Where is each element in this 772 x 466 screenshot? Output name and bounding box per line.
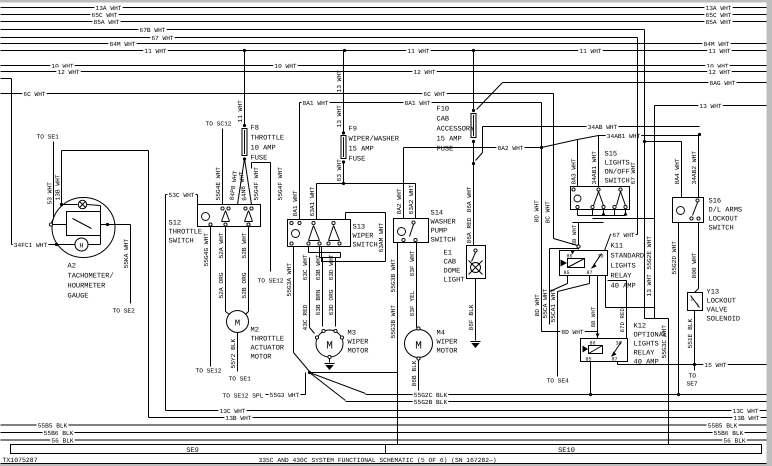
svg-text:55G2E WHT: 55G2E WHT — [646, 236, 653, 270]
svg-text:55G3C WHT: 55G3C WHT — [661, 325, 668, 359]
svg-text:8A2 WHT: 8A2 WHT — [498, 145, 524, 152]
svg-text:63F YEL: 63F YEL — [409, 290, 416, 316]
junction F10 top — [472, 109, 475, 112]
svg-text:SWITCH: SWITCH — [709, 225, 734, 233]
svg-text:13B WHT: 13B WHT — [55, 174, 62, 200]
wire 52A to M2 — [225, 227, 227, 312]
svg-text:53C WHT: 53C WHT — [169, 192, 195, 199]
junction 34AB/34AB1/34AB2 — [698, 133, 701, 136]
svg-text:55G4F WHT: 55G4F WHT — [253, 167, 260, 201]
svg-text:55CA WHT: 55CA WHT — [542, 289, 549, 319]
svg-text:55G4E WHT: 55G4E WHT — [215, 167, 222, 201]
wire 13B WHT bus — [149, 417, 767, 419]
svg-text:55G3B WHT: 55G3B WHT — [390, 305, 397, 339]
junction gauge lamp left — [60, 203, 63, 206]
M3 terminals — [322, 329, 325, 332]
S15 contact triangles — [594, 192, 599, 206]
relay K11 box — [560, 251, 608, 276]
wire riser x148 down to 13B bus — [148, 151, 150, 418]
wire 63A1 WHT to S13 — [316, 184, 318, 220]
svg-text:DOME: DOME — [444, 268, 461, 276]
svg-text:S16: S16 — [709, 198, 722, 206]
svg-text:40 AMP: 40 AMP — [634, 359, 659, 367]
wire 86B BLK below M4 — [418, 361, 420, 395]
wire 65C WHT bus — [1, 14, 767, 16]
svg-text:THROTTLE: THROTTLE — [169, 229, 203, 237]
svg-text:86F BLK: 86F BLK — [468, 304, 475, 330]
wire 8A2 WHT — [404, 147, 542, 149]
svg-text:M3: M3 — [348, 330, 356, 338]
junction 11 WHT / F10 feed — [472, 49, 475, 52]
junction 63 node — [342, 182, 345, 185]
wire 52B to M2 — [248, 227, 250, 312]
svg-text:15 WHT: 15 WHT — [704, 362, 727, 369]
svg-text:2: 2 — [691, 297, 694, 303]
wire 55G3C WHT riser to SE10 — [668, 319, 670, 445]
svg-text:Y13: Y13 — [707, 289, 720, 297]
svg-text:55G3B WHT: 55G3B WHT — [390, 259, 397, 293]
wire 8A1 WHT — [300, 102, 542, 104]
fuse F9 — [342, 131, 345, 134]
wire 13 WHT riser — [654, 106, 656, 308]
wire lamp top route to 13B riser — [61, 151, 63, 205]
svg-text:55B6 BLK: 55B6 BLK — [714, 430, 744, 437]
wire 8C WHT from 6C to K11 — [553, 94, 555, 239]
svg-text:TO SE4: TO SE4 — [547, 378, 570, 385]
svg-text:55Y2 BLK: 55Y2 BLK — [230, 339, 237, 369]
K11 pin 86 junction — [571, 251, 575, 255]
svg-text:ACTUATOR: ACTUATOR — [251, 345, 285, 353]
svg-text:13 WHT: 13 WHT — [336, 105, 343, 128]
K12 contact arm — [612, 342, 622, 357]
svg-text:87: 87 — [587, 270, 593, 276]
S14 contact — [412, 221, 415, 224]
S15 top pins — [572, 188, 575, 191]
svg-text:8D WHT: 8D WHT — [561, 329, 584, 336]
wire 67D RED riser to K12 pin 30 — [608, 280, 627, 282]
svg-text:40 AMP: 40 AMP — [611, 283, 636, 291]
svg-text:12 WHT: 12 WHT — [708, 69, 731, 76]
svg-text:63AM WHT: 63AM WHT — [378, 223, 385, 253]
wire F10 output to 86A node — [473, 142, 475, 164]
svg-text:HOURMETER: HOURMETER — [68, 283, 107, 291]
wire 67B WHT bus — [1, 29, 645, 31]
junction S15 collector arrows — [602, 212, 606, 216]
svg-text:CAB: CAB — [437, 116, 450, 124]
svg-text:SWITCH: SWITCH — [353, 242, 378, 250]
svg-text:LOCKOUT: LOCKOUT — [709, 216, 738, 224]
lamp on gauge — [62, 204, 78, 206]
wire 84M WHT bus — [1, 43, 767, 45]
wire 8A2 WHT to S14 — [403, 148, 405, 219]
svg-text:55G2D WHT: 55G2D WHT — [671, 241, 678, 275]
svg-text:87: 87 — [612, 357, 618, 363]
K12 coil arrow — [583, 346, 589, 353]
svg-text:SOLENOID: SOLENOID — [707, 316, 741, 324]
svg-text:8A3 WHT: 8A3 WHT — [571, 158, 578, 184]
wire 34AB1 WHT — [599, 135, 700, 137]
wire 6C WHT — [1, 93, 554, 95]
svg-text:E1: E1 — [444, 250, 452, 258]
wire 12 WHT bus — [1, 71, 767, 73]
wire 56 BLK bus — [1, 439, 767, 441]
wire K12 pin 87 to 15 WHT — [617, 362, 619, 365]
svg-text:55G2B BLK: 55G2B BLK — [414, 399, 448, 406]
svg-text:34AB2 WHT: 34AB2 WHT — [691, 151, 698, 185]
svg-text:STANDARD: STANDARD — [611, 253, 645, 261]
wire 67 WHT bus — [1, 37, 638, 39]
svg-text:43C RED: 43C RED — [302, 304, 309, 330]
svg-text:63F WHT: 63F WHT — [409, 250, 416, 276]
svg-text:34FC1 WHT: 34FC1 WHT — [14, 242, 48, 249]
wire 55KA WHT from gauge — [130, 225, 132, 304]
svg-text:K11: K11 — [611, 243, 624, 251]
svg-text:67D RED: 67D RED — [619, 308, 626, 333]
svg-text:TO SC12: TO SC12 — [206, 121, 232, 128]
svg-text:VALVE: VALVE — [707, 307, 728, 315]
svg-text:8A4 WHT: 8A4 WHT — [674, 158, 681, 184]
wire 55G2C BLK bus — [366, 394, 767, 396]
wire 55G4E WHT to S12 — [222, 129, 224, 205]
wire 63D to M3 — [335, 258, 337, 327]
svg-text:34AB WHT: 34AB WHT — [588, 124, 618, 131]
wire 8A2 to S15 diagonal — [542, 140, 578, 148]
K11 coil — [568, 259, 585, 268]
svg-text:MOTOR: MOTOR — [348, 348, 370, 356]
svg-text:85A WHT: 85A WHT — [706, 19, 732, 26]
wire 67B WHT riser — [644, 30, 646, 319]
svg-text:ON/OFF: ON/OFF — [605, 168, 630, 177]
wire 8B WHT to K11 pin 86 — [573, 222, 604, 224]
svg-text:SE9: SE9 — [186, 447, 199, 455]
svg-text:8B WHT: 8B WHT — [571, 224, 578, 245]
S12 contact arms — [222, 211, 226, 222]
svg-text:55B5 BLK: 55B5 BLK — [708, 422, 738, 429]
wire 8D WHT long riser — [541, 103, 543, 332]
grey screenshot border right — [767, 0, 772, 466]
svg-text:63 WHT: 63 WHT — [336, 159, 343, 182]
wire 8A3 riser into S15 — [577, 140, 579, 187]
switch S13 wiper box — [288, 220, 351, 247]
junction 15 WHT / TO SE7 — [693, 363, 696, 366]
svg-text:WIPER: WIPER — [348, 339, 370, 347]
svg-text:SWITCH: SWITCH — [605, 178, 630, 186]
wire K12 pin 85 to ground bus — [590, 362, 592, 395]
connector block SE10 — [386, 445, 762, 454]
wire 67 WHT into K11 pin 30 — [611, 234, 638, 236]
wire left edge stub y78 — [1, 78, 12, 80]
wire 55G3B WHT down from S14 — [397, 243, 399, 445]
wire 8A4 rung — [645, 141, 682, 143]
svg-text:67 WHT: 67 WHT — [151, 35, 174, 42]
connector block SE9 — [11, 445, 386, 454]
svg-text:56 BLK: 56 BLK — [51, 437, 74, 444]
svg-text:56 BLK: 56 BLK — [723, 437, 746, 444]
svg-text:FUSE: FUSE — [437, 146, 454, 154]
relay K12 box — [581, 339, 628, 362]
svg-text:55KA WHT: 55KA WHT — [123, 239, 130, 269]
svg-text:30: 30 — [616, 341, 622, 347]
svg-text:55G3A WHT: 55G3A WHT — [286, 263, 293, 297]
wire 63F to M4 — [416, 243, 418, 328]
svg-text:67 WHT: 67 WHT — [612, 232, 635, 239]
K12 coil — [589, 346, 603, 354]
bottom frame line — [1, 463, 767, 465]
fuse F8 — [243, 124, 246, 127]
wire 55Y2 BLK below M2 — [237, 333, 239, 372]
wire 34AB riser from F10 output — [482, 127, 484, 153]
lamp E1 cab dome light box — [467, 246, 486, 279]
wire 67 WHT riser — [637, 38, 639, 235]
svg-text:TO SE12: TO SE12 — [258, 278, 284, 285]
E1 switch contact — [474, 249, 477, 252]
wire 55G4F WHT bracket to TO SE12 — [252, 162, 271, 164]
svg-text:8C WHT: 8C WHT — [545, 201, 552, 224]
gauge inner meter rect — [67, 212, 101, 236]
svg-text:55B6 BLK: 55B6 BLK — [44, 430, 74, 437]
svg-text:15 AMP: 15 AMP — [437, 136, 462, 144]
svg-text:55G4G WHT: 55G4G WHT — [203, 233, 210, 267]
S13 bottom pins — [290, 242, 293, 245]
junction K11 pin 86 — [577, 245, 580, 248]
ground below M3 — [329, 359, 331, 363]
wire 55G4G WHT to TO SE12 — [210, 227, 212, 367]
svg-text:12 WHT: 12 WHT — [413, 69, 436, 76]
svg-text:8A1 WHT: 8A1 WHT — [303, 100, 329, 107]
junction gauge left terminal — [55, 243, 58, 246]
svg-text:WASHER: WASHER — [431, 219, 457, 227]
wire K11 pin 87 down — [589, 276, 591, 284]
svg-text:WIPER: WIPER — [437, 339, 459, 347]
svg-text:52A WHT: 52A WHT — [218, 232, 225, 258]
wire 13A WHT top bus — [1, 7, 767, 9]
svg-text:TO SE1: TO SE1 — [37, 134, 60, 141]
svg-text:8D WHT: 8D WHT — [534, 294, 541, 317]
svg-text:63D WHT: 63D WHT — [328, 254, 335, 280]
switch S15 box — [571, 187, 630, 210]
K11 contact arm — [592, 254, 602, 269]
svg-text:S13: S13 — [353, 224, 366, 232]
svg-text:52B ORG: 52B ORG — [241, 272, 248, 298]
S15 bottom pins — [576, 205, 579, 208]
wire 15 WHT — [618, 364, 767, 366]
junction F10 bottom — [472, 140, 475, 143]
wire 85A WHT bus — [1, 21, 767, 23]
svg-text:63B BRN: 63B BRN — [315, 289, 322, 315]
svg-text:TACHOMETER/: TACHOMETER/ — [68, 272, 114, 281]
svg-text:SE7: SE7 — [687, 381, 698, 388]
wire 34AB WHT — [483, 126, 700, 128]
svg-text:11 WHT: 11 WHT — [237, 100, 244, 123]
wire 63B to M3 — [322, 258, 324, 327]
svg-text:TO SE12: TO SE12 — [196, 368, 222, 375]
svg-text:53 WHT: 53 WHT — [47, 182, 54, 205]
svg-text:M: M — [235, 319, 240, 329]
svg-text:11 WHT: 11 WHT — [708, 48, 731, 55]
svg-text:TO SE2: TO SE2 — [113, 308, 136, 315]
wire F9 feed from 11 bus — [343, 51, 345, 133]
wire F8 feed from 11 bus — [244, 51, 246, 125]
S15 output collectors — [578, 215, 626, 217]
svg-text:86: 86 — [567, 254, 573, 260]
grey screenshot border top — [0, 0, 772, 3]
svg-text:S14: S14 — [431, 210, 444, 218]
junction M4 to 55G2C bus — [417, 393, 420, 396]
svg-text:M2: M2 — [251, 327, 259, 335]
svg-text:6C WHT: 6C WHT — [23, 91, 46, 98]
ground below E1 — [471, 341, 481, 343]
wire 800 WHT to Y13 — [698, 223, 700, 289]
svg-text:TO: TO — [689, 373, 697, 380]
svg-text:335C AND 430C SYSTEM FUNCTIONA: 335C AND 430C SYSTEM FUNCTIONAL SCHEMATI… — [258, 457, 496, 464]
svg-text:55B5 BLK: 55B5 BLK — [38, 422, 68, 429]
junction 8D arrow at K12 feed — [596, 334, 600, 338]
svg-text:F10: F10 — [437, 106, 450, 114]
M4 terminals — [417, 327, 420, 330]
svg-text:MOTOR: MOTOR — [251, 354, 273, 362]
wire S13 inner routing — [309, 252, 341, 254]
svg-text:FUSE: FUSE — [251, 155, 268, 163]
svg-text:SWITCH: SWITCH — [169, 238, 194, 246]
svg-text:8D WHT: 8D WHT — [534, 200, 541, 223]
wire 8D WHT into K12 — [542, 331, 598, 333]
svg-text:WIPER/WASHER: WIPER/WASHER — [349, 135, 400, 144]
svg-text:30: 30 — [598, 254, 604, 260]
svg-text:67B WHT: 67B WHT — [140, 27, 166, 34]
gauge left pin and meter wire — [49, 223, 52, 226]
svg-text:LOCKOUT: LOCKOUT — [707, 298, 736, 306]
motor M2 throttle actuator — [227, 311, 249, 333]
svg-text:52B WHT: 52B WHT — [241, 232, 248, 258]
svg-text:13 WHT: 13 WHT — [699, 103, 722, 110]
wire 8A4 WHT to S16 — [681, 142, 683, 198]
svg-text:551E BLK: 551E BLK — [687, 319, 694, 349]
switch S14 box — [394, 219, 429, 243]
svg-text:RELAY: RELAY — [611, 273, 633, 281]
wire 55G3A WHT — [293, 247, 295, 353]
svg-text:TO SE1: TO SE1 — [229, 376, 252, 383]
wire 84N8 WHT diagonal — [245, 159, 252, 205]
svg-text:LIGHT: LIGHT — [444, 277, 465, 285]
svg-text:11 WHT: 11 WHT — [579, 48, 602, 55]
wire splice to 55G2B bus diagonal — [310, 373, 346, 401]
wire 55B5 BLK bus — [1, 424, 767, 426]
svg-text:LIGHTS: LIGHTS — [605, 160, 630, 168]
svg-text:55G4F WHT: 55G4F WHT — [277, 167, 284, 201]
E1 lamp symbol — [471, 263, 481, 273]
svg-text:FUSE: FUSE — [349, 156, 366, 164]
switch S12 box — [198, 205, 261, 227]
svg-text:55CA1 WHT: 55CA1 WHT — [550, 289, 557, 323]
svg-text:8AG WHT: 8AG WHT — [710, 80, 736, 87]
svg-text:TO SE12 SPL: TO SE12 SPL — [223, 393, 264, 400]
junction 86A node — [472, 162, 475, 165]
junction 11 WHT / F9 feed — [343, 49, 346, 52]
wire 11 WHT bus — [1, 50, 767, 52]
wire riser x165 to 13C bus — [165, 195, 167, 411]
svg-text:86A WHT: 86A WHT — [466, 186, 473, 212]
wire lamp right route to hourmeter — [87, 205, 101, 206]
wire 86A WHT / 86A RED to E1 — [473, 164, 475, 246]
svg-text:86: 86 — [590, 341, 596, 347]
svg-text:6C WHT: 6C WHT — [423, 91, 446, 98]
svg-text:THROTTLE: THROTTLE — [251, 135, 285, 143]
wire 84P8 WHT diagonal — [238, 159, 245, 205]
wire 63 WHT F9 output — [343, 162, 345, 184]
wire 63C/43C to M3 — [309, 258, 311, 328]
svg-text:K12: K12 — [634, 323, 647, 331]
S14 bottom pins — [402, 238, 405, 241]
svg-text:SWITCH: SWITCH — [431, 237, 456, 245]
svg-text:8A2 WHT: 8A2 WHT — [396, 188, 403, 214]
svg-text:SE10: SE10 — [558, 447, 575, 455]
solenoid Y13 box — [688, 293, 703, 311]
svg-text:8B WHT: 8B WHT — [590, 306, 597, 327]
svg-text:86A RED: 86A RED — [466, 217, 473, 243]
svg-text:34AB1 WHT: 34AB1 WHT — [607, 133, 641, 140]
wire 34AB2 WHT to S16 — [698, 135, 700, 198]
wire F10 feed — [473, 51, 475, 111]
wire 55G2D WHT down to ground bus — [678, 223, 680, 395]
svg-text:ACCESSORY: ACCESSORY — [437, 126, 476, 134]
svg-text:CAB: CAB — [444, 259, 457, 267]
svg-text:PUMP: PUMP — [431, 228, 448, 236]
svg-text:15 AMP: 15 AMP — [349, 146, 374, 154]
svg-text:63C WHT: 63C WHT — [302, 254, 309, 280]
gauge hourmeter H circle — [57, 244, 76, 246]
S14 circle — [398, 228, 406, 236]
svg-text:8A1 WHT: 8A1 WHT — [292, 190, 299, 216]
S13 rotary circle — [292, 230, 300, 238]
svg-text:D/L ARMS: D/L ARMS — [709, 206, 743, 215]
svg-text:63B WHT: 63B WHT — [315, 254, 322, 280]
junction gauge right terminal — [106, 223, 109, 226]
wire 55B6 BLK bus — [1, 432, 767, 434]
K11 coil arrow — [561, 260, 568, 267]
gauge A2 body circle — [52, 198, 115, 258]
wire 551E BLK below Y13 — [694, 311, 696, 365]
wire splice to 55G2C bus diagonal — [310, 373, 366, 394]
svg-text:34AB1 WHT: 34AB1 WHT — [591, 151, 598, 185]
fuse F10 — [471, 114, 476, 138]
wire 53 WHT to gauge left pin — [53, 142, 55, 219]
wire 34AB1 riser to S15 — [598, 136, 600, 187]
svg-text:63A2 WHT: 63A2 WHT — [408, 185, 415, 215]
wire 8AG WHT — [503, 82, 767, 84]
svg-text:85A WHT: 85A WHT — [94, 19, 120, 26]
wire 63 distribution — [317, 183, 416, 185]
svg-text:11 WHT: 11 WHT — [407, 48, 430, 55]
motor M4 wiper — [405, 330, 433, 358]
svg-text:TX1075287: TX1075287 — [3, 457, 38, 464]
svg-text:10 WHT: 10 WHT — [274, 63, 297, 70]
wire K11 pin 85 down — [567, 276, 569, 284]
S12 contact pins — [221, 207, 224, 210]
svg-text:M: M — [415, 341, 422, 353]
switch S16 box — [673, 198, 704, 223]
svg-text:1: 1 — [697, 304, 700, 309]
S12 rotary contact circle — [202, 213, 210, 221]
svg-text:86B BLK: 86B BLK — [411, 360, 418, 386]
svg-text:63D ORG: 63D ORG — [328, 289, 335, 315]
junction 11 WHT / F8 feed — [243, 49, 246, 52]
S13 top pins — [290, 221, 293, 224]
wire 13 rung into K11 right — [606, 307, 655, 309]
wire 8A1 WHT to S13 — [299, 103, 301, 220]
S15 rotary circle — [574, 195, 581, 202]
svg-text:13 WHT: 13 WHT — [646, 274, 653, 297]
svg-text:S15: S15 — [605, 151, 618, 159]
